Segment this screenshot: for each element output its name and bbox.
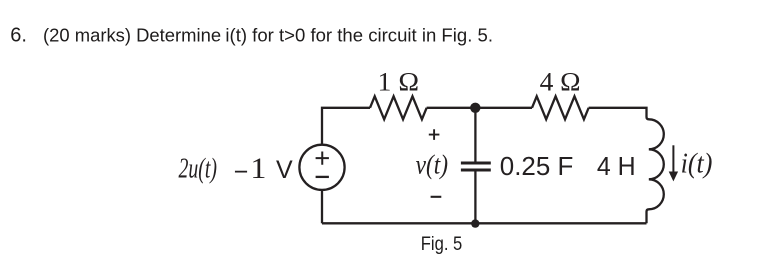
capacitor plus polarity mark xyxy=(429,129,440,140)
svg-text:6.: 6. xyxy=(10,25,27,47)
svg-text:V: V xyxy=(276,156,293,184)
inductor L1 4-H coil xyxy=(647,114,664,223)
svg-text:i(t) for t>0 for the circuit i: i(t) for t>0 for the circuit in Fig. 5. xyxy=(225,25,493,46)
wire: bottom rail xyxy=(322,222,647,224)
resistor R2 4-ohm zigzag xyxy=(532,96,589,119)
svg-text:4 H: 4 H xyxy=(597,151,636,181)
node B junction dot xyxy=(471,219,479,227)
voltage source plus sign xyxy=(316,152,329,165)
current arrow i(t) shaft xyxy=(672,145,674,173)
wire: capacitor bottom lead to node B xyxy=(474,172,476,224)
svg-text:−: − xyxy=(234,158,249,186)
svg-text:(20 marks) Determine: (20 marks) Determine xyxy=(43,25,221,46)
node A junction dot xyxy=(470,103,480,113)
wire: R2 to top-right corner xyxy=(589,108,647,114)
wire: left branch top (source to top-left corner to R1) xyxy=(322,108,370,145)
svg-text:Fig. 5: Fig. 5 xyxy=(421,234,463,255)
voltage source minus sign xyxy=(316,176,329,178)
svg-text:4 Ω: 4 Ω xyxy=(540,67,581,96)
svg-text:i(t): i(t) xyxy=(681,149,713,180)
current arrow i(t) head xyxy=(669,172,678,182)
wire: capacitor top lead from node A xyxy=(474,108,476,162)
svg-text:2u(t): 2u(t) xyxy=(179,153,218,185)
resistor R1 1-ohm zigzag xyxy=(370,96,427,119)
svg-text:v(t): v(t) xyxy=(416,150,448,180)
capacitor minus polarity mark xyxy=(431,196,442,198)
svg-text:0.25 F: 0.25 F xyxy=(500,151,574,181)
capacitor C1 bottom plate xyxy=(461,169,491,172)
capacitor C1 top plate xyxy=(461,162,491,165)
wire: source bottom lead xyxy=(321,190,323,224)
svg-text:1 Ω: 1 Ω xyxy=(378,67,420,96)
wire: R1 to node A to R2 xyxy=(427,107,532,109)
voltage source V1 circle xyxy=(299,145,344,190)
svg-text:1: 1 xyxy=(250,152,266,185)
